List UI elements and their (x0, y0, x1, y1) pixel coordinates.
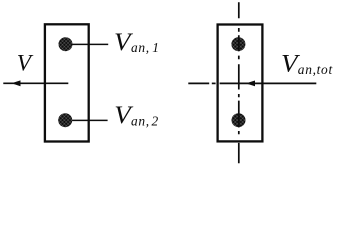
svg-text:an,tot: an,tot (298, 62, 333, 77)
arrow V shaft (3, 82, 68, 84)
right plate outline (218, 25, 263, 142)
arrow V head (12, 80, 21, 86)
arrow V_an,tot head (246, 81, 255, 87)
anchor bolt 3 (right plate, top) (231, 37, 245, 51)
anchor bolt 4 (right plate, bottom) (232, 113, 246, 127)
horizontal dash-dot centerline (left of arrow) (188, 82, 209, 84)
anchor bolt 1 (left plate, top) (59, 37, 73, 51)
vertical dash-dot centerline (238, 2, 240, 163)
leader line to V_an,1 (66, 43, 108, 45)
arrow V_an,tot shaft (220, 82, 317, 84)
svg-text:an,1: an,1 (131, 40, 160, 55)
left plate outline (45, 24, 89, 141)
anchor bolt 2 (left plate, bottom) (58, 113, 72, 127)
svg-text:an,2: an,2 (131, 113, 159, 128)
leader line to V_an,2 (66, 119, 108, 121)
